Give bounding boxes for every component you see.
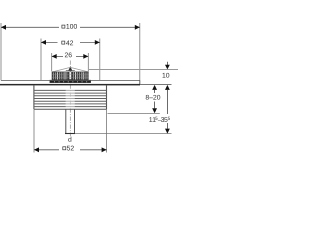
floor level extension line right of grate [89, 69, 178, 71]
grate apex horizontal bar [66, 70, 75, 72]
dimension sq42: left extension line [40, 39, 42, 81]
grate horizontal striation [52, 74, 89, 76]
dimension 115-355: label text [149, 117, 170, 122]
dimension 26: line left part [52, 55, 63, 57]
dimension 8-20: lower tail [154, 102, 156, 109]
dimension 115-355: upper arrow head up [165, 85, 170, 90]
dimension 26: right extension line [87, 53, 89, 71]
dimension sq42: right extension line [99, 39, 101, 81]
dimension 8-20: label text [146, 95, 161, 100]
grate apex marker triangle [68, 66, 72, 71]
grate roof slope left [52, 67, 70, 72]
dimension sq52: label text 52 [67, 146, 74, 151]
dimension 8-20: upper arrow head up [152, 85, 157, 90]
dimension 115-355: upper tail [166, 90, 168, 114]
dimension 26: right arrow [83, 54, 88, 59]
label d [68, 137, 71, 142]
dimension 8-20: bottom reference line [108, 113, 160, 115]
dimension 26: label text 26 [65, 52, 72, 57]
dimension 26: line right part [76, 55, 88, 57]
grate slat brighter slits [57, 72, 83, 79]
dimension sq100: right arrow [135, 25, 140, 30]
flange right edge [139, 80, 141, 85]
dimension 115-355: lower tail [166, 123, 168, 129]
flange bottom thick line [0, 84, 140, 86]
body right edge [106, 85, 108, 109]
dimension sq100: left extension line [0, 23, 2, 80]
dimension 26: left extension line [51, 53, 53, 71]
body ribs [34, 90, 107, 106]
dimension 115-355: lower arrow head down [165, 129, 170, 134]
dimension sq52: left extension line [33, 109, 35, 152]
pipe left wall [65, 109, 67, 133]
dimension sq52: right extension line [106, 109, 108, 152]
dimension sq42: line left part [41, 41, 58, 43]
dimension 8-20: upper tail [154, 90, 156, 93]
grate horizontal striation lower [52, 76, 89, 78]
dimension sq42: left arrow [41, 40, 46, 45]
dimension sq100: label square symbol [62, 25, 65, 28]
dimension 10: upper arrow head down [165, 65, 170, 70]
grate base band notches [54, 81, 87, 82]
grate roof slope right [70, 67, 88, 72]
body bottom line [34, 108, 107, 110]
dimension sq100: line left part [1, 26, 59, 28]
dimension 26: left arrow [52, 54, 57, 59]
dimension sq100: label text 100 [66, 24, 77, 29]
dimension sq42: label square symbol [62, 41, 65, 44]
centerline vertical dash-dot [69, 61, 71, 137]
pipe bottom extension line to right [75, 133, 171, 135]
grate frame base band [50, 80, 91, 83]
dimension sq42: right arrow [95, 40, 100, 45]
dimension 8-20: lower arrow head down [152, 108, 157, 113]
dimension sq100: right extension line [139, 23, 141, 85]
dimension 10: upper arrow tail [166, 62, 168, 65]
flange bottom extension line to right [140, 84, 172, 86]
flange top line [1, 79, 140, 81]
dimension sq52: left arrow [34, 147, 39, 152]
dimension sq100: line right part [80, 26, 140, 28]
dimension sq52: line right part [80, 149, 107, 151]
body left edge [33, 85, 35, 109]
pipe bottom line [65, 133, 75, 135]
body rib lightening over pipe [66, 89, 75, 108]
dimension sq52: right arrow [102, 147, 107, 152]
grate slat center gap [69, 72, 71, 79]
grate slat band [52, 72, 89, 81]
dimension sq52: line left part [34, 149, 59, 151]
grate slat fine gaps [54, 72, 87, 79]
dimension sq42: line right part [80, 41, 100, 43]
dimension sq100: left arrow [1, 25, 6, 30]
dimension sq52: label square symbol [63, 147, 66, 150]
dimension sq42: label text 42 [66, 40, 73, 45]
pipe right wall [74, 109, 76, 133]
dimension 10: label text [163, 73, 170, 78]
